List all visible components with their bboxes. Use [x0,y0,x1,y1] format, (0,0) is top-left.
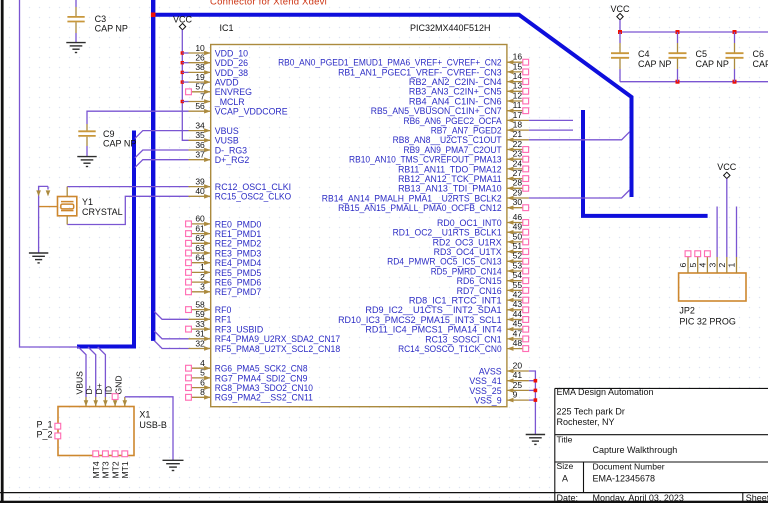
svg-text:VBUS: VBUS [215,126,239,136]
IC1 left pin 60 RE0_PMD0 [186,214,262,230]
svg-text:CAP NP: CAP NP [95,24,128,34]
svg-text:3: 3 [200,282,205,292]
svg-text:PIC 32 PROG: PIC 32 PROG [679,316,736,326]
svg-text:Y1: Y1 [82,197,93,207]
wire RF5 to bus [154,341,188,349]
svg-text:50: 50 [513,231,523,241]
svg-text:5: 5 [688,263,698,268]
IC1 right pin 17 RB6_AN6_PGEC2_OCFA [404,110,529,126]
svg-text:Capture Walkthrough: Capture Walkthrough [593,445,678,455]
IC1 left pin 3 RE7_PMD7 [186,282,262,298]
ground (X1) [163,459,184,461]
svg-text:MT1: MT1 [120,461,130,478]
IC1 right pin 22 RB9_AN9_PMA7_C2OUT [404,139,529,155]
X1 mount pin MT4 [91,451,101,479]
svg-text:CAP NP: CAP NP [638,59,671,69]
svg-text:1: 1 [727,263,737,268]
svg-text:37: 37 [195,150,205,160]
svg-text:RD7_CN16: RD7_CN16 [457,286,502,296]
svg-text:RD5_PMRD_CN14: RD5_PMRD_CN14 [431,266,502,276]
svg-text:RE1_PMD1: RE1_PMD1 [215,229,262,239]
svg-text:28: 28 [513,178,523,188]
IC1 left pin 59 RF1 [189,309,232,325]
connector X1 USB-B body [58,407,134,456]
svg-text:RC15_OSC2_CLKO: RC15_OSC2_CLKO [215,192,291,202]
junction rail C6 top [733,30,737,34]
svg-text:CAP NP: CAP NP [753,59,768,69]
svg-text:RB0_AN0_PGED1_EMUD1_PMA6_VREF+: RB0_AN0_PGED1_EMUD1_PMA6_VREF+_CVREF+_CN… [278,58,502,68]
wire decoupling top rail [620,31,768,33]
svg-text:D-_RG3: D-_RG3 [215,145,247,155]
JP2 pin 5 stub [688,251,701,273]
svg-text:RG7_PMA4_SDI2_CN9: RG7_PMA4_SDI2_CN9 [215,373,308,383]
svg-text:57: 57 [195,82,205,92]
svg-text:C6: C6 [753,49,765,59]
IC1 right pin 48 RC14_SOSCO_T1CK_CN0 [398,338,529,354]
wire USB bus entry D- [88,347,96,397]
svg-text:8: 8 [200,387,205,397]
svg-text:31: 31 [195,329,205,339]
svg-text:64: 64 [195,253,205,263]
wire VBUS to USB bus [135,131,189,139]
IC1 right pin 51 RD3_OC4_U1TX [434,241,529,257]
IC1 left pin 32 RF5_PMA8_U2TX_SCL2_CN18 [189,338,341,354]
capacitor C4 [611,32,629,82]
IC1 right pin 13 RB3_AN3_C2IN+_CN5 [409,81,529,97]
svg-text:Date:: Date: [557,493,579,503]
svg-text:22: 22 [513,139,523,149]
svg-text:23: 23 [513,149,523,159]
wire crystal case to ground [39,186,48,253]
IC1 right pin 55 RD7_CN16 [457,280,529,296]
svg-text:RD11_IC4_PMCS1_PMA14_INT4: RD11_IC4_PMCS1_PMA14_INT4 [365,325,501,335]
IC1 right pin 15 RB1_AN1_PGEC1_VREF-_CVREF-_CN3 [338,61,529,77]
junction AVDD [181,80,184,83]
IC1 left pin 10 VDD_10 [189,43,249,59]
svg-text:EMA Design Automation: EMA Design Automation [557,387,654,397]
junction rail C5 top [676,30,680,34]
IC1 left pin 64 RE4_PMD4 [186,253,262,269]
svg-text:RE3_PMD3: RE3_PMD3 [215,248,262,258]
IC1 right pin 52 RD4_PMWR_OC5_IC5_CN13 [387,251,529,267]
svg-text:D+_RG2: D+_RG2 [215,155,250,165]
svg-text:53: 53 [513,260,523,270]
X1 mount pin MT3 [101,451,111,479]
IC1 right pin 27 RB12_AN12_TCK_PMA11 [398,168,529,184]
svg-text:39: 39 [195,176,205,186]
svg-text:30: 30 [513,197,523,207]
svg-text:RB6_AN6_PGEC2_OCFA: RB6_AN6_PGEC2_OCFA [404,116,502,126]
ground (C9) [77,156,96,158]
svg-text:RB8_AN8__U2CTS_C1OUT: RB8_AN8__U2CTS_C1OUT [393,135,503,145]
svg-text:RB12_AN12_TCK_PMA11: RB12_AN12_TCK_PMA11 [398,174,502,184]
IC1 left pin 8 RG9_PMA2__SS2_CN11 [186,387,313,403]
svg-text:9: 9 [513,390,518,400]
title block background [555,388,768,503]
IC1 right pin 12 RB4_AN4_C1IN-_CN6 [409,90,529,106]
svg-text:18: 18 [513,120,523,130]
svg-text:RD0_OC1_INT0: RD0_OC1_INT0 [437,218,502,228]
svg-text:RB2_AN2_C2IN-_CN4: RB2_AN2_C2IN-_CN4 [409,77,502,87]
IC1 right pin 18 RB7_AN7_PGED2 [431,120,529,136]
svg-text:Rochester, NY: Rochester, NY [557,417,615,427]
IC1 left pin 26 VDD_26 [189,53,249,69]
IC1 right pin 41 VSS_41 [469,370,529,386]
svg-text:VSS_25: VSS_25 [469,386,501,396]
JP2 pin 2 stub [717,257,727,273]
svg-text:4: 4 [200,358,205,368]
wire D+_RG2 to USB bus [135,160,189,168]
svg-text:45: 45 [513,319,523,329]
svg-text:2: 2 [200,272,205,282]
IC1 left pin 38 VDD_38 [189,62,249,78]
IC1 right pin 29 RB14_AN14_PMALH_PMA1__U2RTS_BCLK2 [322,187,529,203]
svg-text:VUSB: VUSB [215,136,239,146]
svg-text:C5: C5 [696,49,708,59]
wire USB bus entry VBUS [78,347,86,397]
page bottom bar [0,501,768,503]
JP2 pin 1 stub [727,257,737,273]
svg-text:7: 7 [200,91,205,101]
wire vertical at far left down to USB bus [20,0,79,347]
IC1 left pin 1 RE5_PMD5 [186,262,262,278]
IC1 right pin 23 RB10_AN10_TMS_CVREFOUT_PMA13 [349,149,529,165]
svg-text:61: 61 [195,223,205,233]
IC1 right pin 16 RB0_AN0_PGED1_EMUD1_PMA6_VREF+_CVREF+_CN2 [278,52,529,68]
svg-text:VBUS: VBUS [75,371,85,395]
svg-text:35: 35 [195,130,205,140]
IC1 right pin 46 RD0_OC1_INT0 [437,212,529,228]
page border bottom line [0,492,768,494]
IC1 left pin 6 RG8_PMA3_SDO2_CN10 [186,377,313,393]
svg-text:PIC32MX440F512H: PIC32MX440F512H [410,23,491,33]
IC1 right pin 54 RD6_CN15 [457,270,529,286]
svg-text:RD6_CN15: RD6_CN15 [457,276,502,286]
IC1 right pin 14 RB2_AN2_C2IN-_CN4 [409,71,529,87]
junction VSS_41 [534,379,538,383]
svg-text:RB4_AN4_C1IN-_CN6: RB4_AN4_C1IN-_CN6 [409,96,502,106]
svg-text:34: 34 [195,120,205,130]
svg-text:48: 48 [513,338,523,348]
IC1 right pin 47 RC13_SOSCI_CN1 [425,328,529,344]
IC1 left pin 62 RE2_PMD2 [186,233,262,249]
wire VCC to rail [619,20,621,32]
svg-text:IC1: IC1 [220,23,234,33]
svg-text:RB7_AN7_PGED2: RB7_AN7_PGED2 [431,126,502,136]
svg-text:RG6_PMA5_SCK2_CN8: RG6_PMA5_SCK2_CN8 [215,364,308,374]
svg-text:17: 17 [513,110,523,120]
crystal case pin arrows [36,190,41,196]
svg-text:CRYSTAL: CRYSTAL [82,207,123,217]
svg-text:RB14_AN14_PMALH_PMA1__U2RTS_BC: RB14_AN14_PMALH_PMA1__U2RTS_BCLK2 [322,193,502,203]
IC1 left pin 40 RC15_OSC2_CLKO [189,186,292,202]
svg-text:54: 54 [513,270,523,280]
junction rail C4 [618,30,622,34]
wire VCC feed down left pins to VUSB [182,30,188,141]
svg-text:49: 49 [513,222,523,232]
IC1 right pin 50 RD2_OC3_U1RX [433,231,529,247]
X1 top pin 1 [84,397,89,407]
X1 mount pin MT2 [110,451,120,479]
svg-text:10: 10 [195,43,205,53]
junction rail C5 bottom [676,80,680,84]
svg-text:38: 38 [195,62,205,72]
svg-text:RG8_PMA3_SDO2_CN10: RG8_PMA3_SDO2_CN10 [215,383,313,393]
svg-text:RF1: RF1 [215,315,232,325]
IC1 right pin 25 VSS_25 [469,380,529,396]
ground (C3) [66,42,85,44]
svg-text:JP2: JP2 [679,306,695,316]
svg-text:RD2_OC3_U1RX: RD2_OC3_U1RX [433,237,502,247]
svg-text:32: 32 [195,338,205,348]
junction VDD_26 [181,61,184,64]
svg-text:14: 14 [513,71,523,81]
svg-text:56: 56 [195,101,205,111]
IC1 left pin 63 RE3_PMD3 [186,243,262,259]
svg-text:16: 16 [513,52,523,62]
svg-text:VCC: VCC [173,14,193,24]
ground (VSS) [526,434,545,436]
svg-text:Title: Title [557,434,573,444]
svg-text:24: 24 [513,158,523,168]
svg-text:MT4: MT4 [91,461,101,478]
svg-text:_MCLR: _MCLR [214,97,245,107]
svg-text:47: 47 [513,328,523,338]
wire GND pin to ground [125,397,173,460]
IC1 right pin 45 RD11_IC4_PMCS1_PMA14_INT4 [365,319,529,335]
X1 pin P_1 [55,423,61,429]
junction VDD_38 [181,71,184,74]
svg-text:33: 33 [195,319,205,329]
X1 top pin 4 [113,397,118,407]
wire RF4 to bus [154,331,188,339]
wire RC12_OSC1_CLKI to crystal [67,186,188,188]
wire JP2 pin 2 to VCC [726,179,728,257]
IC1 PIC32MX440F512H body [211,45,507,407]
svg-text:2: 2 [717,263,727,268]
svg-text:6: 6 [678,263,688,268]
X1 pin P_2 [55,433,61,439]
svg-text:ENVREG: ENVREG [215,87,252,97]
svg-text:VSS_9: VSS_9 [474,396,501,406]
svg-text:D-: D- [84,385,94,394]
IC1 left pin 31 RF4_PMA9_U2RX_SDA2_CN17 [189,329,341,345]
svg-text:26: 26 [195,53,205,63]
capacitor C9 [78,124,95,156]
bus: main vertical power bus [151,0,155,341]
wire RB14 to right bus [529,190,630,198]
IC1 right pin 53 RD5_PMRD_CN14 [431,260,529,276]
svg-text:RD10_IC3_PMCS2_PMA15_INT3_SCL1: RD10_IC3_PMCS2_PMA15_INT3_SCL1 [338,315,502,325]
svg-text:RC14_SOSCO_T1CK_CN0: RC14_SOSCO_T1CK_CN0 [398,344,502,354]
svg-text:RD1_OC2__U1RTS_BCLK1: RD1_OC2__U1RTS_BCLK1 [393,228,502,238]
svg-text:27: 27 [513,168,523,178]
IC1 left pin 4 RG6_PMA5_SCK2_CN8 [186,358,308,374]
svg-text:CAP NP: CAP NP [103,139,136,149]
junction rail C6 bottom [733,80,737,84]
svg-text:RD3_OC4_U1TX: RD3_OC4_U1TX [434,247,502,257]
capacitor C5 [669,32,687,82]
bus: right vertical with bottom run to JP2 area [583,110,708,216]
svg-text:19: 19 [195,72,205,82]
svg-text:58: 58 [195,299,205,309]
svg-text:25: 25 [513,380,523,390]
svg-text:RB10_AN10_TMS_CVREFOUT_PMA13: RB10_AN10_TMS_CVREFOUT_PMA13 [349,155,502,165]
junction _MCLR [181,100,184,103]
svg-text:1: 1 [200,262,205,272]
IC1 left pin 37 D+_RG2 [189,150,250,166]
svg-text:RF4_PMA9_U2RX_SDA2_CN17: RF4_PMA9_U2RX_SDA2_CN17 [215,334,340,344]
svg-text:62: 62 [195,233,205,243]
svg-text:P_2: P_2 [37,429,53,439]
svg-text:RC13_SOSCI_CN1: RC13_SOSCI_CN1 [425,334,501,344]
svg-text:RE2_PMD2: RE2_PMD2 [215,239,262,249]
IC1 right pin 44 RD10_IC3_PMCS2_PMA15_INT3_SCL1 [338,309,529,325]
IC1 left pin 2 RE6_PMD6 [186,272,262,288]
IC1 right pin 28 RB13_AN13_TDI_PMA10 [398,178,529,194]
svg-text:Document Number: Document Number [593,462,665,472]
svg-text:20: 20 [513,360,523,370]
svg-text:RE4_PMD4: RE4_PMD4 [215,258,262,268]
svg-text:VDD_10: VDD_10 [215,48,248,58]
svg-text:A: A [562,474,568,484]
IC1 left pin 57 ENVREG [186,82,253,98]
svg-text:RE0_PMD0: RE0_PMD0 [215,219,262,229]
svg-text:63: 63 [195,243,205,253]
IC1 left pin 39 RC12_OSC1_CLKI [189,176,292,192]
svg-text:15: 15 [513,61,523,71]
svg-text:VCAP_VDDCORE: VCAP_VDDCORE [215,107,288,117]
IC1 left pin 19 AVDD [189,72,239,88]
svg-text:RD4_PMWR_OC5_IC5_CN13: RD4_PMWR_OC5_IC5_CN13 [387,257,502,267]
svg-text:RE6_PMD6: RE6_PMD6 [215,278,262,288]
X1 mount pin MT1 [120,451,130,479]
IC1 left pin 33 RF3_USBID [186,319,264,335]
svg-text:RB1_AN1_PGEC1_VREF-_CVREF-_CN3: RB1_AN1_PGEC1_VREF-_CVREF-_CN3 [338,67,502,77]
junction bus corner [151,12,156,17]
svg-text:Monday, April 03, 2023: Monday, April 03, 2023 [593,493,684,503]
svg-text:6: 6 [200,377,205,387]
svg-text:RE5_PMD5: RE5_PMD5 [215,268,262,278]
wire VCAP_VDDCORE to C9 [87,111,189,124]
junction VDD_10 [181,51,184,54]
IC1 right pin 49 RD1_OC2__U1RTS_BCLK1 [393,222,529,238]
svg-text:Size: Size [557,461,574,471]
IC1 left pin 5 RG7_PMA4_SDI2_CN9 [186,368,308,384]
IC1 right pin 11 RB5_AN5_VBUSON_C1IN+_CN7 [371,100,529,116]
svg-text:AVSS: AVSS [479,366,502,376]
title block frame [555,388,768,503]
svg-text:MT2: MT2 [110,461,120,478]
wire JP2 pin 3 net [716,207,718,258]
svg-text:13: 13 [513,81,523,91]
IC1 right pin 9 VSS_9 [474,390,529,406]
wire AVSS/VSS to ground [529,371,536,434]
svg-text:60: 60 [195,214,205,224]
svg-text:42: 42 [513,290,523,300]
IC1 left pin 34 VBUS [189,120,239,136]
IC1 right pin 42 RD8_IC1_RTCC_INT1 [409,290,529,306]
svg-text:MT3: MT3 [101,461,111,478]
svg-text:RB11_AN11_TDO_PMA12: RB11_AN11_TDO_PMA12 [398,164,502,174]
svg-text:5: 5 [200,368,205,378]
svg-text:VSS_41: VSS_41 [469,376,501,386]
IC1 left pin 61 RE1_PMD1 [186,223,262,239]
svg-text:41: 41 [513,370,523,380]
svg-text:46: 46 [513,212,523,222]
svg-text:VCC: VCC [610,4,630,14]
svg-text:RD9_IC2__U1CTS__INT2_SDA1: RD9_IC2__U1CTS__INT2_SDA1 [365,305,501,315]
svg-text:3: 3 [707,263,717,268]
svg-text:RF3_USBID: RF3_USBID [215,325,263,335]
IC1 right pin 20 AVSS [479,360,529,376]
svg-text:Sheet: Sheet [746,493,768,503]
svg-text:RB15_AN15_PMALL_PMA0_OCFB_CN12: RB15_AN15_PMALL_PMA0_OCFB_CN12 [338,203,502,213]
IC1 right pin 24 RB11_AN11_TDO_PMA12 [398,158,529,174]
svg-text:21: 21 [513,129,523,139]
bus: top horizontal run with diagonal to right bus [153,15,631,197]
X1 top pin 3 [103,397,108,407]
svg-text:44: 44 [513,309,523,319]
svg-text:VCC: VCC [717,162,737,172]
svg-text:USB-B: USB-B [139,420,167,430]
svg-text:51: 51 [513,241,523,251]
JP2 pin 3 stub [707,257,717,273]
svg-text:29: 29 [513,187,523,197]
wire RB6 stub net [529,119,573,121]
IC1 left pin 36 D-_RG3 [189,140,248,156]
svg-text:C9: C9 [103,129,115,139]
svg-text:GND: GND [113,375,123,394]
junction VSS_25 [534,389,538,393]
IC1 left pin 58 RF0 [186,299,232,315]
svg-text:40: 40 [195,186,205,196]
svg-text:36: 36 [195,140,205,150]
svg-text:59: 59 [195,309,205,319]
JP2 pin 4 stub [698,251,711,273]
IC1 left pin 35 VUSB [189,130,239,146]
crystal Y1 [39,187,77,225]
svg-text:RB5_AN5_VBUSON_C1IN+_CN7: RB5_AN5_VBUSON_C1IN+_CN7 [371,106,502,116]
wire D-_RG3 to USB bus [135,150,189,158]
IC1 right pin 43 RD9_IC2__U1CTS__INT2_SDA1 [365,299,529,315]
svg-text:11: 11 [513,100,522,110]
svg-text:EMA-12345678: EMA-12345678 [593,474,656,484]
svg-text:RF0: RF0 [215,305,232,315]
X1 top pin 5 [123,397,128,407]
capacitor C3 [67,0,84,42]
svg-text:D+: D+ [94,383,104,394]
svg-text:RE7_PMD7: RE7_PMD7 [215,287,262,297]
IC1 left pin 56 VCAP_VDDCORE [189,101,288,117]
wire decoupling bottom rail [620,81,768,83]
ground (Y1) [29,252,48,254]
IC1 left pin 7 _MCLR [189,91,245,107]
IC1 right pin 30 RB15_AN15_PMALL_PMA0_OCFB_CN12 [338,197,529,213]
svg-text:4: 4 [698,263,708,268]
IC1 right pin 21 RB8_AN8__U2CTS_C1OUT [393,129,529,145]
svg-text:43: 43 [513,299,523,309]
svg-text:55: 55 [513,280,523,290]
wire RB8 to right bus [529,132,630,140]
wire RC15_OSC2_CLKO to crystal [67,196,188,224]
connector JP2 body [679,273,746,301]
svg-text:12: 12 [513,90,523,100]
svg-text:RD8_IC1_RTCC_INT1: RD8_IC1_RTCC_INT1 [409,296,502,306]
svg-text:RB13_AN13_TDI_PMA10: RB13_AN13_TDI_PMA10 [398,184,502,194]
svg-text:RF5_PMA8_U2TX_SCL2_CN18: RF5_PMA8_U2TX_SCL2_CN18 [215,344,340,354]
X1 top pin 2 [93,397,98,407]
